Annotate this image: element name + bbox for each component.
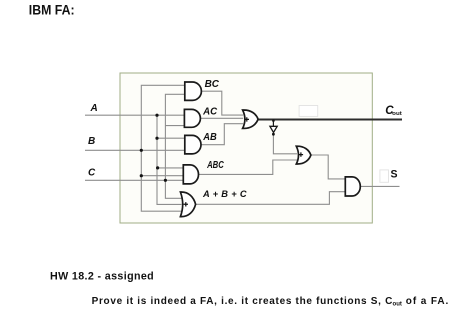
placeholder box near S [380, 170, 389, 182]
svg-text:out: out [392, 111, 402, 117]
svg-text:AC: AC [202, 105, 217, 117]
inverter bubble dot [272, 133, 275, 136]
wire tap B to ABC middle [141, 175, 183, 177]
wire input A [85, 114, 185, 116]
svg-text:AB: AB [202, 131, 217, 143]
AND gate BC [185, 82, 202, 100]
inverter triangle [270, 126, 277, 132]
junction dot A-line x157 [155, 114, 158, 117]
junction dot ABC-middle tap [140, 174, 143, 177]
junction dot C-line x165.4 [164, 179, 167, 182]
svg-text:A: A [90, 103, 98, 114]
AND gate AC [184, 109, 200, 127]
svg-text:ABC: ABC [206, 160, 224, 171]
svg-text:HW 18.2 - assigned: HW 18.2 - assigned [50, 271, 154, 283]
wire BC output to OR2 top input [202, 91, 244, 115]
plus sign inside OR1 [184, 202, 188, 206]
junction dot B-line x141.3 [140, 149, 143, 152]
AND gate AB [185, 135, 201, 154]
wire bus B (x=141.3) to BC top and OR bottom [141, 85, 184, 211]
junction dot on Cout line [272, 119, 275, 122]
wire AC output to OR2 middle input [200, 117, 243, 119]
svg-text:BC: BC [205, 78, 220, 90]
svg-text:S: S [391, 168, 398, 180]
svg-text:IBM FA:: IBM FA: [29, 2, 75, 18]
wire Cout thick output line [258, 119, 402, 121]
wire tap A to ABC top [158, 167, 184, 169]
wire bus A (x=157) to OR middle [157, 115, 182, 204]
junction dot ABC-top tap [156, 166, 159, 169]
OR gate second level (OR3) [296, 146, 311, 164]
green schematic frame [120, 73, 372, 223]
wire ABC output to OR3 bottom input [198, 160, 297, 174]
wire AB output to OR2 bottom input [201, 124, 243, 145]
svg-text:of a FA.: of a FA. [406, 296, 449, 307]
svg-text:out: out [393, 301, 403, 308]
wire OR3 output to S-AND top input [311, 155, 345, 179]
OR gate A+B+C (OR1) [180, 192, 195, 217]
wire stub from Cout line down to inverter [272, 120, 274, 127]
plus sign inside OR3 [299, 152, 303, 156]
svg-text:A + B + C: A + B + C [202, 189, 247, 199]
wire OR1 output to S-AND bottom input [196, 192, 346, 205]
wire tap C to AC bottom [165, 125, 184, 127]
OR gate Cout (OR2) [243, 110, 259, 128]
wire tap A to AB top [157, 137, 185, 139]
wire input B [85, 149, 185, 151]
wire input C [85, 179, 183, 181]
plus sign inside OR2 [245, 117, 249, 121]
AND gate ABC [183, 165, 198, 184]
placeholder box near Cout [299, 106, 318, 117]
wire S output [360, 185, 399, 187]
svg-text:Prove it is indeed a FA, i.e.: Prove it is indeed a FA, i.e. it creates… [92, 296, 393, 307]
wire inverter output to OR3 top input [273, 135, 297, 154]
junction dot AB-top tap [155, 137, 158, 140]
svg-text:C: C [88, 168, 96, 179]
AND gate S [345, 177, 360, 196]
svg-text:B: B [88, 136, 95, 147]
wire bus C (x=165.4) to BC bottom and OR top [165, 94, 184, 198]
